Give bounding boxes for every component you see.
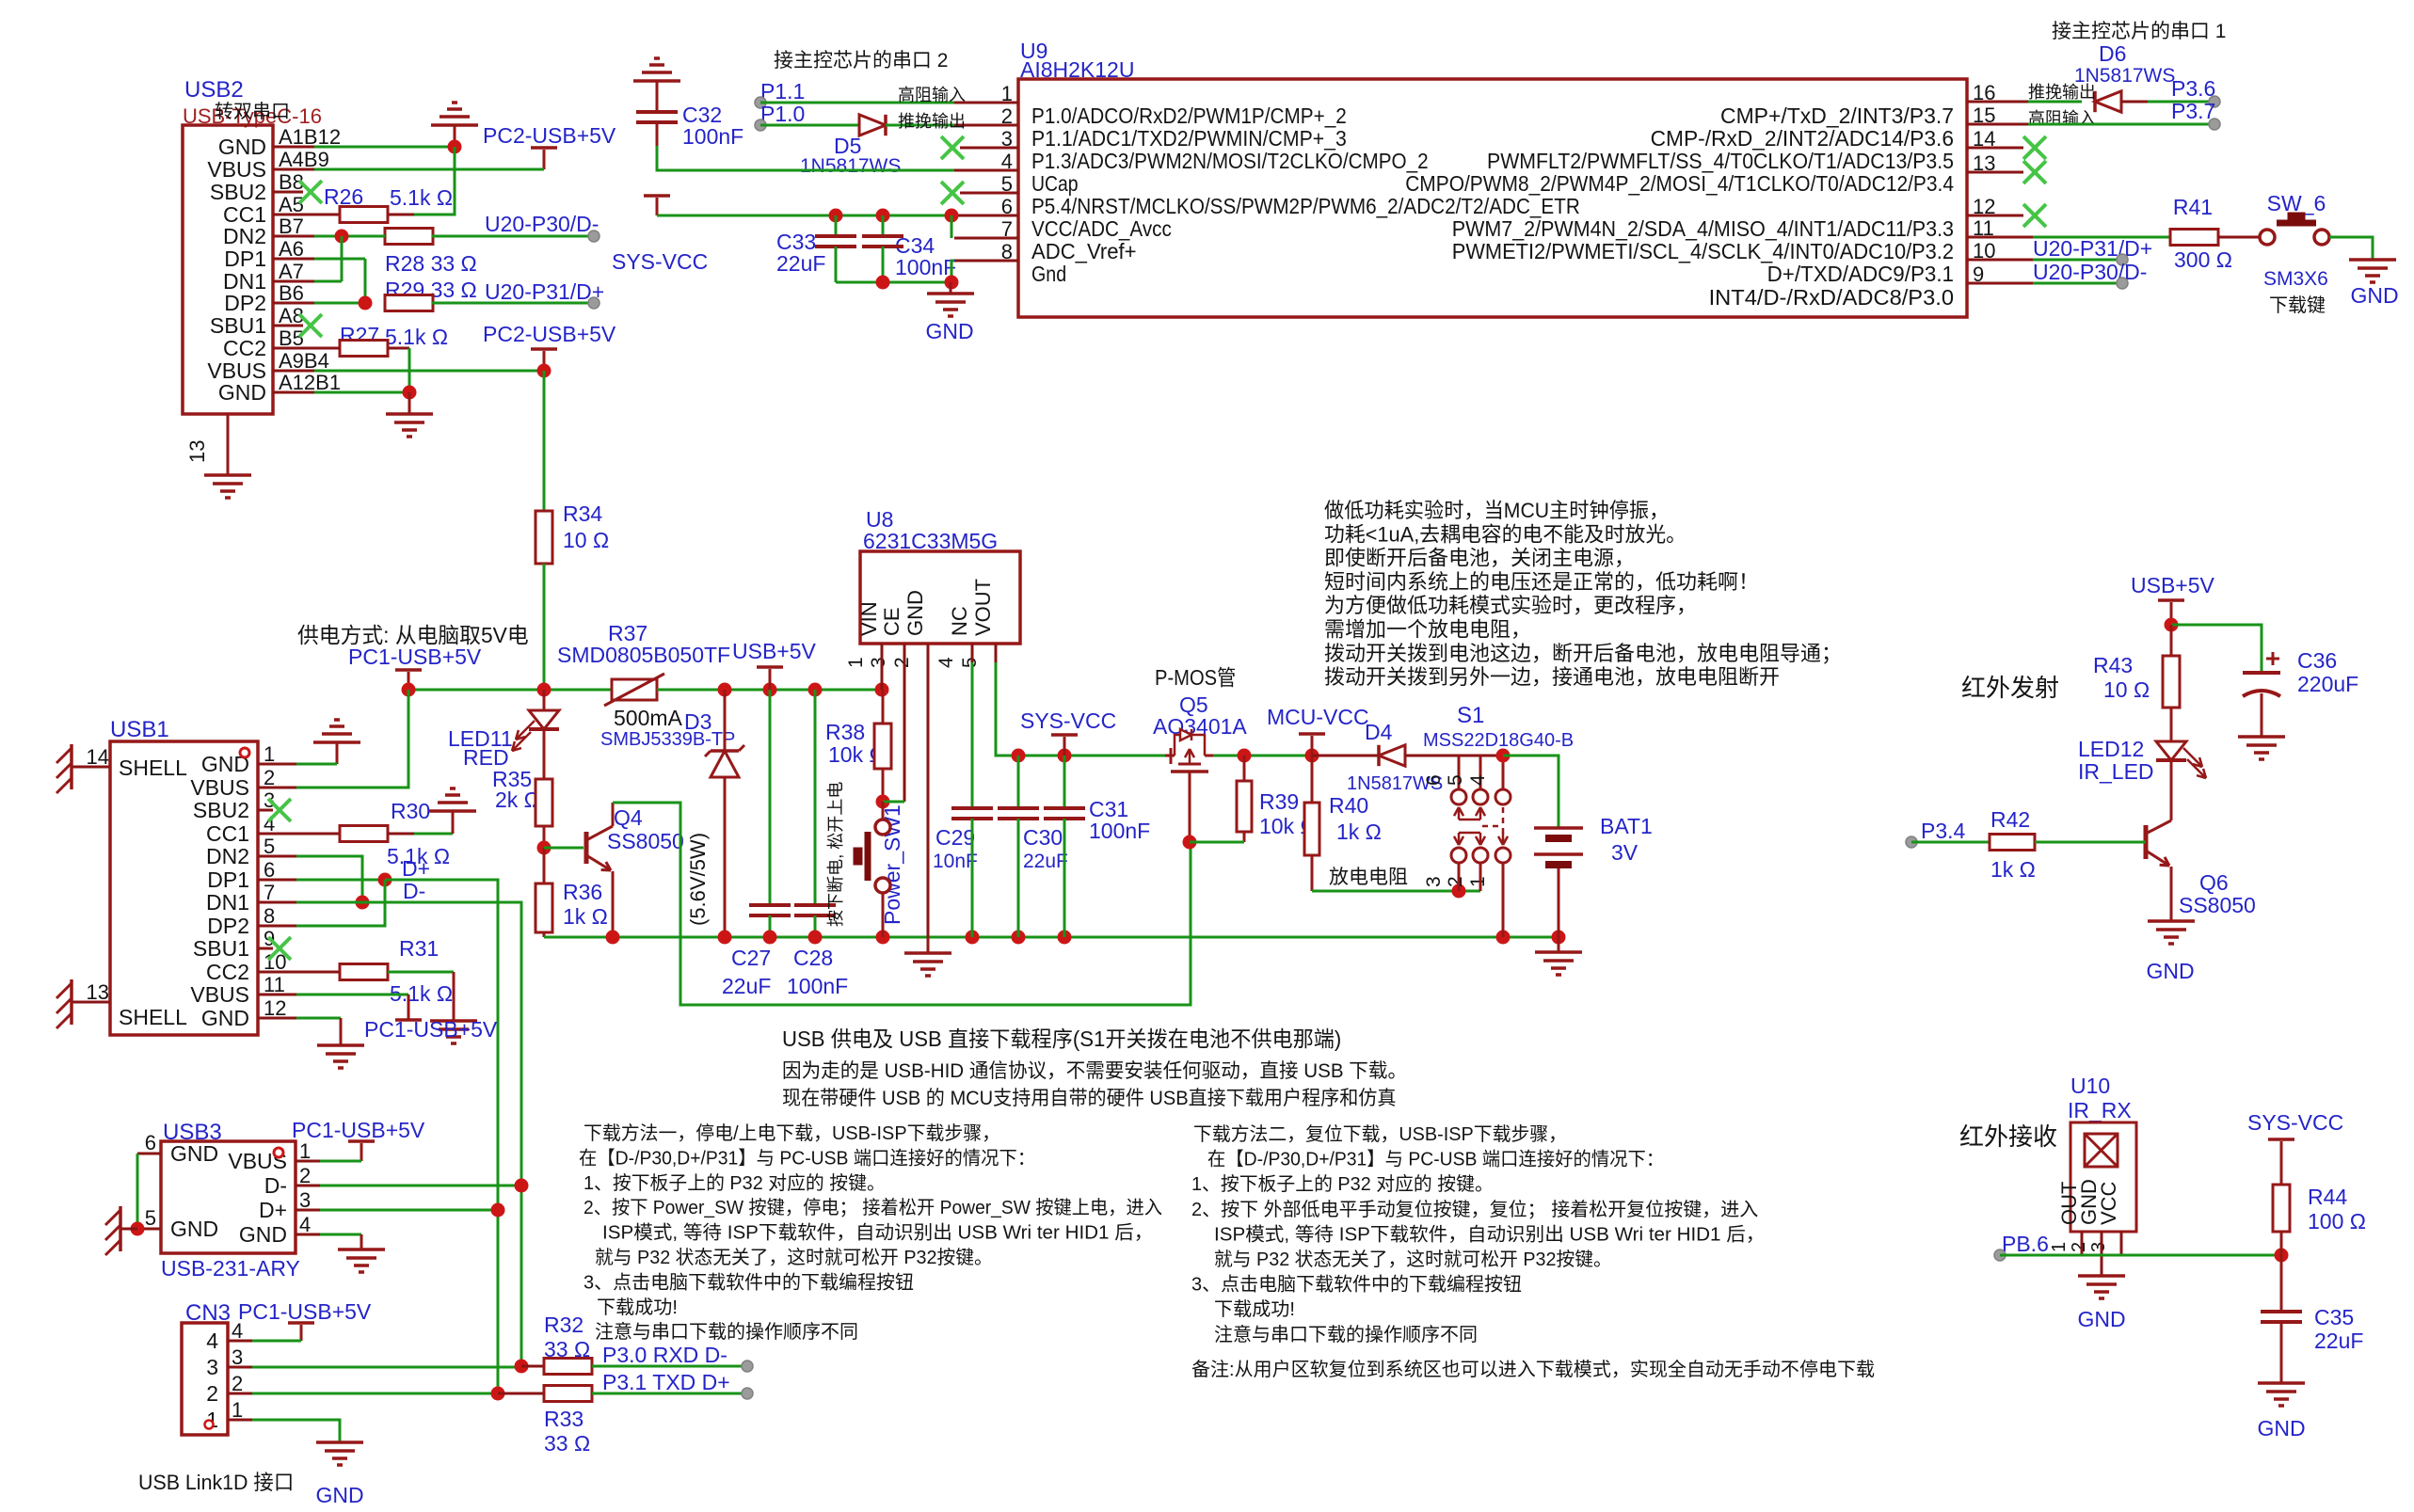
svg-text:Q4: Q4 xyxy=(614,805,643,830)
no-connect X on USB2 B8/SBU2 xyxy=(299,181,322,203)
svg-text:U20-P30/D-: U20-P30/D- xyxy=(2033,260,2147,284)
junction (146,1306) xyxy=(131,1222,145,1236)
svg-text:3: 3 xyxy=(2088,1242,2109,1252)
USB1 pin stubs xyxy=(258,763,296,766)
svg-text:IR_RX: IR_RX xyxy=(2068,1098,2132,1122)
svg-text:CMP-/RxD_2/INT2/ADC14/P3.6: CMP-/RxD_2/INT2/ADC14/P3.6 xyxy=(1651,126,1954,151)
ground (battery) xyxy=(1558,937,1560,952)
svg-text:CMPO/PWM8_2/PWM4P_2/MOSI_4/T1C: CMPO/PWM8_2/PWM4P_2/MOSI_4/T1CLKO/T0/ADC… xyxy=(1405,171,1954,196)
junction (1011,229) xyxy=(945,209,959,223)
svg-text:GND: GND xyxy=(239,1222,287,1247)
svg-text:DN1: DN1 xyxy=(206,890,249,915)
svg-text:在【D-/P30,D+/P31】与 PC-USB 端口连接好: 在【D-/P30,D+/P31】与 PC-USB 端口连接好的情况下： xyxy=(1207,1149,1664,1170)
ground (C36) xyxy=(2238,735,2285,739)
svg-text:U20-P31/D+: U20-P31/D+ xyxy=(2033,236,2152,261)
chassis ground (USB1 shell top) xyxy=(70,744,73,789)
junction (554,1260) xyxy=(515,1179,529,1193)
junction (1264,895) xyxy=(1183,836,1197,850)
wire USB1 VBUS pin2 to +5V rail xyxy=(296,690,408,788)
svg-text:A6: A6 xyxy=(279,237,304,261)
junction (818,733) xyxy=(763,683,777,697)
junction (818,996) xyxy=(763,931,777,945)
svg-text:R43: R43 xyxy=(2093,653,2133,677)
junction (1033,996) xyxy=(966,931,980,945)
svg-text:R34: R34 xyxy=(563,501,602,526)
wire SYS-VCC to U9 VCC pin6 xyxy=(657,215,951,217)
CN3 pin stubs xyxy=(228,1340,252,1343)
svg-text:GND: GND xyxy=(2257,1416,2305,1440)
wire U9 pin16 to D6 xyxy=(2028,101,2082,103)
svg-text:5: 5 xyxy=(959,657,981,668)
USB3 pin stubs xyxy=(296,1160,320,1163)
junction (1656,996) xyxy=(1552,931,1566,945)
svg-text:7: 7 xyxy=(264,881,275,904)
svg-text:P3.1 TXD D+: P3.1 TXD D+ xyxy=(602,1370,730,1394)
ground above R30 xyxy=(429,809,476,813)
wire S1 pin1 to ground rail xyxy=(1502,863,1505,937)
svg-text:P-MOS管: P-MOS管 xyxy=(1155,665,1236,690)
wire ground rail under C33/C34 xyxy=(836,281,951,284)
svg-text:1k Ω: 1k Ω xyxy=(1336,820,1382,844)
svg-text:CMP+/TxD_2/INT3/P3.7: CMP+/TxD_2/INT3/P3.7 xyxy=(1720,103,1954,128)
ground (Q6 emitter) xyxy=(2148,919,2195,923)
wire VCC to ADC_Vref pin7 xyxy=(951,215,953,238)
wire CN3 pin3 to D-/R32 xyxy=(252,1366,521,1369)
no-connect X U9 pin3 xyxy=(941,136,964,159)
svg-text:2: 2 xyxy=(2069,1242,2089,1252)
svg-text:即使断开后备电池，关闭主电源，: 即使断开后备电池，关闭主电源， xyxy=(1324,547,1635,570)
junction (1082,996) xyxy=(1012,931,1026,945)
connector USB1 body xyxy=(110,741,258,1035)
svg-text:C28: C28 xyxy=(793,946,833,970)
svg-text:3、点击电脑下载软件中的下载编程按钮: 3、点击电脑下载软件中的下载编程按钮 xyxy=(1191,1274,1522,1296)
svg-text:USB-231-ARY: USB-231-ARY xyxy=(161,1256,300,1281)
wire USB1 DN1 row (D- net) xyxy=(296,901,362,904)
junction (363,251) xyxy=(335,230,349,244)
svg-text:SYS-VCC: SYS-VCC xyxy=(2247,1110,2343,1135)
svg-text:U20-P30/D-: U20-P30/D- xyxy=(485,212,599,236)
svg-text:GND: GND xyxy=(2350,283,2398,308)
svg-text:22uF: 22uF xyxy=(1023,851,1068,872)
svg-text:5: 5 xyxy=(264,835,275,858)
svg-text:(5.6V/5W): (5.6V/5W) xyxy=(686,833,710,926)
svg-text:C36: C36 xyxy=(2297,648,2337,673)
svg-text:3: 3 xyxy=(206,1355,218,1379)
wire USB3 GND pin4 xyxy=(320,1233,361,1236)
svg-text:PC2-USB+5V: PC2-USB+5V xyxy=(483,123,616,148)
wire USB2 VBUS row A4B9 to PC2-USB+5V xyxy=(314,168,544,171)
U8 GND pin wire xyxy=(927,644,930,937)
svg-text:3: 3 xyxy=(868,657,889,668)
U8 CE pin wire xyxy=(903,644,906,802)
ground (USB2 pin13) xyxy=(204,473,251,477)
wire CN3 pin2 to D+/R33 xyxy=(252,1393,498,1395)
junction (529,1481) xyxy=(491,1387,505,1401)
junction (385,959) xyxy=(356,896,370,910)
junction (2424,1334) xyxy=(2275,1249,2289,1263)
svg-text:PC2-USB+5V: PC2-USB+5V xyxy=(483,322,616,346)
svg-text:100nF: 100nF xyxy=(787,974,848,998)
ground (USB2 A12B1) xyxy=(408,392,411,414)
svg-text:ADC_Vref+: ADC_Vref+ xyxy=(1031,239,1137,263)
svg-text:PC1-USB+5V: PC1-USB+5V xyxy=(238,1299,372,1324)
svg-text:5.1k Ω: 5.1k Ω xyxy=(390,185,453,210)
wire main +5V rail xyxy=(408,689,612,692)
svg-text:3、点击电脑下载软件中的下载编程按钮: 3、点击电脑下载软件中的下载编程按钮 xyxy=(584,1271,914,1293)
svg-text:13: 13 xyxy=(185,440,209,463)
svg-text:A7: A7 xyxy=(279,260,304,283)
wire USB2 GND A12B1 row xyxy=(314,391,409,394)
svg-text:USB+5V: USB+5V xyxy=(2131,573,2215,597)
svg-text:B6: B6 xyxy=(279,281,304,305)
svg-text:3V: 3V xyxy=(1611,840,1639,865)
svg-text:P1.1: P1.1 xyxy=(760,79,805,103)
svg-text:1N5817WS: 1N5817WS xyxy=(800,155,901,177)
wire R27 to ground at A12B1 xyxy=(408,348,411,392)
U9 right pin stubs xyxy=(1967,101,2028,103)
svg-text:PC1-USB+5V: PC1-USB+5V xyxy=(364,1017,498,1042)
svg-text:4: 4 xyxy=(1467,774,1489,786)
svg-text:1: 1 xyxy=(1467,876,1489,887)
junction (1597,996) xyxy=(1496,931,1511,945)
svg-text:1k Ω: 1k Ω xyxy=(1990,857,2036,882)
svg-text:Q6: Q6 xyxy=(2199,870,2229,895)
svg-text:P5.4/NRST/MCLKO/SS/PWM2P/PWM6_: P5.4/NRST/MCLKO/SS/PWM2P/PWM6_2/ADC2/T2/… xyxy=(1031,194,1580,218)
USB2 pin stubs xyxy=(273,146,314,149)
svg-text:CC1: CC1 xyxy=(206,821,249,846)
wire C32 to U9 UCap pin4 xyxy=(657,146,954,170)
svg-text:R32: R32 xyxy=(544,1313,584,1337)
svg-text:R42: R42 xyxy=(1990,807,2030,832)
svg-text:就与 P32 状态无关了，这时就可松开 P32按键。: 就与 P32 状态无关了，这时就可松开 P32按键。 xyxy=(595,1247,993,1268)
svg-text:R36: R36 xyxy=(563,880,602,904)
wire CN3 pin1 to ground xyxy=(252,1420,340,1442)
junction (866,996) xyxy=(808,931,823,945)
svg-text:U10: U10 xyxy=(2070,1074,2110,1098)
svg-text:P3.6: P3.6 xyxy=(2171,76,2215,101)
svg-text:11: 11 xyxy=(264,973,285,996)
ground (R31) xyxy=(430,1019,477,1023)
junction (578,733) xyxy=(537,683,552,697)
svg-text:功耗<1uA,去耦电容的电不能及时放光。: 功耗<1uA,去耦电容的电不能及时放光。 xyxy=(1324,522,1687,546)
svg-text:100nF: 100nF xyxy=(1089,819,1150,843)
svg-text:SS8050: SS8050 xyxy=(607,829,684,853)
svg-text:3: 3 xyxy=(1423,876,1445,887)
junction (483,156) xyxy=(448,140,462,154)
svg-text:就与 P32 状态无关了，这时就可松开 P32按键。: 就与 P32 状态无关了，这时就可松开 P32按键。 xyxy=(1214,1249,1612,1270)
wire U9 Gnd pin8 down xyxy=(951,261,954,282)
svg-text:4: 4 xyxy=(206,1329,218,1353)
ground above USB1 pin1 xyxy=(313,740,360,744)
ground (USB1 pin12) xyxy=(317,1043,364,1047)
junction (938,852) xyxy=(876,795,890,809)
junction (1597,803) xyxy=(1496,749,1511,763)
svg-text:需增加一个放电电阻，: 需增加一个放电电阻， xyxy=(1324,618,1531,642)
svg-text:22uF: 22uF xyxy=(776,251,825,276)
svg-text:按下断电, 松开上电: 按下断电, 松开上电 xyxy=(826,782,845,927)
junction (1550,947) xyxy=(1452,884,1466,899)
wire USB3 D- pin2 xyxy=(320,1185,521,1187)
svg-text:GND: GND xyxy=(170,1141,218,1166)
svg-text:1: 1 xyxy=(232,1398,243,1422)
no-connect X U9 pin13 xyxy=(2023,161,2046,183)
svg-text:100nF: 100nF xyxy=(895,255,956,279)
svg-text:INT4/D-/RxD/ADC8/P3.0: INT4/D-/RxD/ADC8/P3.0 xyxy=(1709,285,1954,310)
svg-text:DN2: DN2 xyxy=(206,844,249,868)
junction (529,1286) xyxy=(491,1203,505,1218)
svg-text:C29: C29 xyxy=(935,825,975,850)
no-connect X U9 pin5 xyxy=(941,182,964,204)
junction (554,1452) xyxy=(515,1360,529,1374)
svg-text:Gnd: Gnd xyxy=(1031,262,1066,286)
svg-text:SYS-VCC: SYS-VCC xyxy=(612,249,708,274)
svg-text:B5: B5 xyxy=(279,326,304,350)
U10 pin stubs xyxy=(2081,1232,2084,1255)
connector CN3 body xyxy=(182,1323,228,1435)
wire DN2 net to R28 xyxy=(314,235,385,238)
svg-text:R31: R31 xyxy=(399,936,439,961)
ground (USB3 pin4) xyxy=(338,1248,385,1251)
wire PB.6 to U10/R44 xyxy=(2000,1254,2281,1257)
svg-text:A1B12: A1B12 xyxy=(279,125,341,149)
svg-text:C27: C27 xyxy=(731,946,771,970)
svg-text:VCC/ADC_Avcc: VCC/ADC_Avcc xyxy=(1031,216,1172,241)
svg-text:P3.7: P3.7 xyxy=(2171,99,2215,123)
svg-text:R39: R39 xyxy=(1259,789,1299,814)
svg-text:R41: R41 xyxy=(2173,195,2213,219)
U8 VIN pin wire xyxy=(881,644,884,690)
svg-text:R38: R38 xyxy=(825,720,865,744)
chassis ground (USB1 shell bottom) xyxy=(70,979,73,1025)
svg-text:SMD0805B050TF: SMD0805B050TF xyxy=(557,643,730,667)
svg-text:PB.6: PB.6 xyxy=(2002,1232,2049,1256)
svg-text:DP1: DP1 xyxy=(224,247,266,271)
svg-text:22uF: 22uF xyxy=(2314,1329,2363,1353)
svg-text:6: 6 xyxy=(145,1131,156,1154)
svg-text:1: 1 xyxy=(264,742,275,766)
svg-text:2、按下 Power_SW 按键，停电； 接着松开 Powe: 2、按下 Power_SW 按键，停电； 接着松开 Power_SW 按键上电，… xyxy=(584,1197,1162,1218)
U8 VOUT pin wire to SYS-VCC net xyxy=(995,644,998,662)
svg-text:推挽输出: 推挽输出 xyxy=(898,112,966,131)
svg-text:短时间内系统上的电压还是正常的，低功耗啊！: 短时间内系统上的电压还是正常的，低功耗啊！ xyxy=(1324,570,1759,594)
wire USB1 DN2/DN1 tie (D- net) xyxy=(296,856,362,902)
USB2 pin 13 stub to ground xyxy=(227,414,230,475)
wire to C36 xyxy=(2171,625,2262,673)
svg-text:VBUS: VBUS xyxy=(190,982,249,1007)
svg-text:GND: GND xyxy=(201,1006,249,1030)
wire R31 to ground xyxy=(388,971,454,974)
svg-text:2: 2 xyxy=(232,1372,243,1395)
svg-text:UCap: UCap xyxy=(1031,171,1079,196)
svg-text:在【D-/P30,D+/P31】与 PC-USB 端口连接好: 在【D-/P30,D+/P31】与 PC-USB 端口连接好的情况下： xyxy=(579,1147,1035,1169)
svg-text:拨动开关拨到电池这边，断开后备电池，放电电阻导通；: 拨动开关拨到电池这边，断开后备电池，放电电阻导通； xyxy=(1324,642,1842,665)
USB3 pin1 marker xyxy=(274,1148,283,1157)
svg-text:PWMETI2/PWMETI/SCL_4/SCLK_4/IN: PWMETI2/PWMETI/SCL_4/SCLK_4/INT0/ADC10/P… xyxy=(1452,239,1954,263)
svg-text:注意与串口下载的操作顺序不同: 注意与串口下载的操作顺序不同 xyxy=(595,1321,858,1343)
svg-text:VOUT: VOUT xyxy=(971,579,995,636)
junction (1322,803) xyxy=(1238,749,1252,763)
svg-text:下载键: 下载键 xyxy=(2269,294,2326,316)
svg-text:1k Ω: 1k Ω xyxy=(563,904,608,929)
svg-text:SBU2: SBU2 xyxy=(193,798,249,822)
svg-text:500mA: 500mA xyxy=(614,706,683,730)
svg-text:1: 1 xyxy=(299,1139,311,1163)
U9 left pin stubs xyxy=(954,102,1018,104)
svg-text:D+/TXD/ADC9/P3.1: D+/TXD/ADC9/P3.1 xyxy=(1767,262,1954,286)
switch S1 body xyxy=(1458,756,1461,789)
svg-text:SBU1: SBU1 xyxy=(193,936,249,961)
wire USB1 DP2 tie to D+ xyxy=(296,880,385,926)
wire USB2 GND row to ground xyxy=(314,146,455,149)
svg-text:C35: C35 xyxy=(2314,1305,2354,1329)
ground (main rail) xyxy=(927,937,930,953)
svg-text:GND: GND xyxy=(218,135,266,159)
svg-text:SS8050: SS8050 xyxy=(2179,893,2256,917)
svg-text:USB1: USB1 xyxy=(110,717,169,742)
svg-text:CC2: CC2 xyxy=(223,336,266,360)
svg-text:USB Link1D 接口: USB Link1D 接口 xyxy=(138,1471,294,1494)
wire USB2 VBUS A9B4 row xyxy=(314,370,544,373)
svg-text:PWMFLT2/PWMFLT/SS_4/T0CLKO/T1/: PWMFLT2/PWMFLT/SS_4/T0CLKO/T1/ADC13/P3.5 xyxy=(1487,149,1954,173)
wire S1 pin3 bottom xyxy=(1458,863,1461,891)
junction (938,229) xyxy=(876,209,890,223)
ground (CN3 pin1) xyxy=(316,1440,363,1444)
wire Q4 collector to latch net xyxy=(613,803,1191,1005)
svg-text:2: 2 xyxy=(1445,876,1466,887)
junction (1131,996) xyxy=(1058,931,1072,945)
svg-text:备注:从用户区软复位到系统区也可以进入下载模式，实现全自动无: 备注:从用户区软复位到系统区也可以进入下载模式，实现全自动无手动不停电下载 xyxy=(1191,1359,1875,1380)
svg-text:P1.1/ADC1/TXD2/PWMIN/CMP+_3: P1.1/ADC1/TXD2/PWMIN/CMP+_3 xyxy=(1031,126,1347,151)
junction (578,901) xyxy=(537,841,552,855)
IC U9 body xyxy=(1018,79,1967,317)
svg-text:U20-P31/D+: U20-P31/D+ xyxy=(485,279,604,304)
wire USB1 GND pin1 xyxy=(296,763,337,766)
connector USB2 body xyxy=(183,125,273,414)
svg-text:D-: D- xyxy=(264,1173,287,1198)
svg-text:SMBJ5339B-TP: SMBJ5339B-TP xyxy=(600,729,735,750)
junction (888,229) xyxy=(829,209,843,223)
svg-text:R40: R40 xyxy=(1329,793,1368,818)
junction (434,733) xyxy=(402,683,416,697)
svg-text:22uF: 22uF xyxy=(722,974,771,998)
svg-text:LED12: LED12 xyxy=(2078,737,2144,761)
junction (2307,664) xyxy=(2165,618,2179,632)
svg-text:DP2: DP2 xyxy=(207,914,249,938)
svg-text:2k Ω: 2k Ω xyxy=(495,788,540,812)
junction (938,300) xyxy=(876,276,890,290)
svg-text:2: 2 xyxy=(891,657,913,668)
svg-text:1: 1 xyxy=(845,657,867,668)
svg-text:5: 5 xyxy=(145,1206,156,1230)
svg-text:USB+5V: USB+5V xyxy=(732,639,817,663)
wire USB1 GND pin12 xyxy=(296,1017,341,1020)
svg-text:BAT1: BAT1 xyxy=(1600,814,1653,838)
no-connect X on USB2 A8/SBU1 xyxy=(299,314,322,337)
svg-text:红外发射: 红外发射 xyxy=(1961,674,2059,702)
svg-text:ISP模式, 等待 ISP下载软件，自动识别出 USB W: ISP模式, 等待 ISP下载软件，自动识别出 USB Wri ter HID1… xyxy=(1214,1223,1765,1245)
svg-text:2: 2 xyxy=(264,766,275,789)
svg-text:2: 2 xyxy=(299,1164,311,1187)
junction (937,733) xyxy=(875,683,889,697)
junction (770,996) xyxy=(718,931,732,945)
svg-text:R28 33 Ω: R28 33 Ω xyxy=(385,251,477,276)
svg-text:现在带硬件 USB 的 MCU支持用自带的硬件 USB直接下: 现在带硬件 USB 的 MCU支持用自带的硬件 USB直接下载用户程序和仿真 xyxy=(782,1088,1396,1109)
junction (409,935) xyxy=(378,873,392,887)
svg-text:下载方法一，停电/上电下载，USB-ISP下载步骤，: 下载方法一，停电/上电下载，USB-ISP下载步骤， xyxy=(584,1122,1000,1144)
svg-text:P1.0/ADCO/RxD2/PWM1P/CMP+_2: P1.0/ADCO/RxD2/PWM1P/CMP+_2 xyxy=(1031,103,1347,128)
svg-text:R44: R44 xyxy=(2308,1185,2347,1209)
junction (435,417) xyxy=(403,386,417,400)
svg-text:2、按下 外部低电平手动复位按键，复位； 接着松开复位按键，: 2、按下 外部低电平手动复位按键，复位； 接着松开复位按键，进入 xyxy=(1191,1199,1758,1220)
svg-text:拨动开关拨到另外一边，接通电池，放电电阻断开: 拨动开关拨到另外一边，接通电池，放电电阻断开 xyxy=(1324,665,1780,689)
junction (1082,803) xyxy=(1012,749,1026,763)
svg-text:C30: C30 xyxy=(1023,825,1063,850)
svg-text:CC2: CC2 xyxy=(206,960,249,984)
IC U8 body xyxy=(860,551,1020,644)
svg-text:4: 4 xyxy=(935,657,957,668)
svg-text:MSS22D18G40-B: MSS22D18G40-B xyxy=(1423,730,1574,751)
wire USB2 CC2 stub xyxy=(273,347,340,350)
svg-text:IR_LED: IR_LED xyxy=(2078,759,2154,784)
svg-text:VBUS: VBUS xyxy=(207,157,266,182)
svg-text:NC: NC xyxy=(948,606,971,636)
svg-text:PC1-USB+5V: PC1-USB+5V xyxy=(292,1118,425,1142)
wire R40 to S1 bottom xyxy=(1312,890,1480,893)
svg-text:高阻输入: 高阻输入 xyxy=(898,86,966,104)
svg-text:3: 3 xyxy=(232,1345,243,1369)
IC U10 body xyxy=(2070,1122,2136,1232)
svg-text:14: 14 xyxy=(87,745,109,769)
junction (1394,803) xyxy=(1305,749,1319,763)
svg-text:2: 2 xyxy=(206,1381,218,1406)
svg-text:6: 6 xyxy=(264,858,275,882)
svg-text:220uF: 220uF xyxy=(2297,672,2358,696)
svg-text:13: 13 xyxy=(87,980,109,1004)
junction (770,733) xyxy=(718,683,732,697)
wire S1 pin2 bottom xyxy=(1479,863,1482,891)
svg-text:S1: S1 xyxy=(1457,703,1484,728)
svg-text:VBUS: VBUS xyxy=(190,775,249,800)
svg-text:D+: D+ xyxy=(259,1198,287,1222)
svg-text:MCU-VCC: MCU-VCC xyxy=(1267,705,1369,729)
junction (388,322) xyxy=(359,296,373,310)
svg-text:下载成功!: 下载成功! xyxy=(597,1297,678,1318)
svg-text:USB 供电及 USB 直接下载程序(S1开关拨在电池不供电: USB 供电及 USB 直接下载程序(S1开关拨在电池不供电那端) xyxy=(782,1027,1341,1051)
wire CN3 pin4 xyxy=(252,1340,301,1343)
svg-text:100nF: 100nF xyxy=(682,124,743,149)
svg-text:SHELL: SHELL xyxy=(119,756,187,780)
svg-text:DP2: DP2 xyxy=(224,291,266,315)
svg-text:VIN: VIN xyxy=(857,601,881,636)
svg-text:10 Ω: 10 Ω xyxy=(563,528,609,552)
no-connect X U9 pin14 xyxy=(2023,136,2046,159)
svg-text:红外接收: 红外接收 xyxy=(1959,1122,2057,1151)
svg-text:P3.0 RXD D-: P3.0 RXD D- xyxy=(602,1343,727,1367)
svg-text:P1.3/ADC3/PWM2N/MOSI/T2CLKO/CM: P1.3/ADC3/PWM2N/MOSI/T2CLKO/CMPO_2 xyxy=(1031,149,1429,173)
svg-text:PC1-USB+5V: PC1-USB+5V xyxy=(348,645,482,669)
svg-text:GND: GND xyxy=(925,319,973,343)
svg-text:GND: GND xyxy=(315,1483,363,1507)
no-connect X U9 pin12 xyxy=(2023,204,2046,227)
svg-text:A9B4: A9B4 xyxy=(279,349,329,373)
svg-text:300 Ω: 300 Ω xyxy=(2174,247,2232,272)
svg-text:P3.4: P3.4 xyxy=(1921,819,1966,843)
svg-text:接主控芯片的串口 1: 接主控芯片的串口 1 xyxy=(2052,21,2226,42)
wire SW_6 to ground xyxy=(2329,237,2373,260)
svg-text:下载成功!: 下载成功! xyxy=(1214,1298,1295,1320)
no-connect X USB1 SBU1 xyxy=(268,937,291,960)
svg-text:D4: D4 xyxy=(1365,720,1393,744)
